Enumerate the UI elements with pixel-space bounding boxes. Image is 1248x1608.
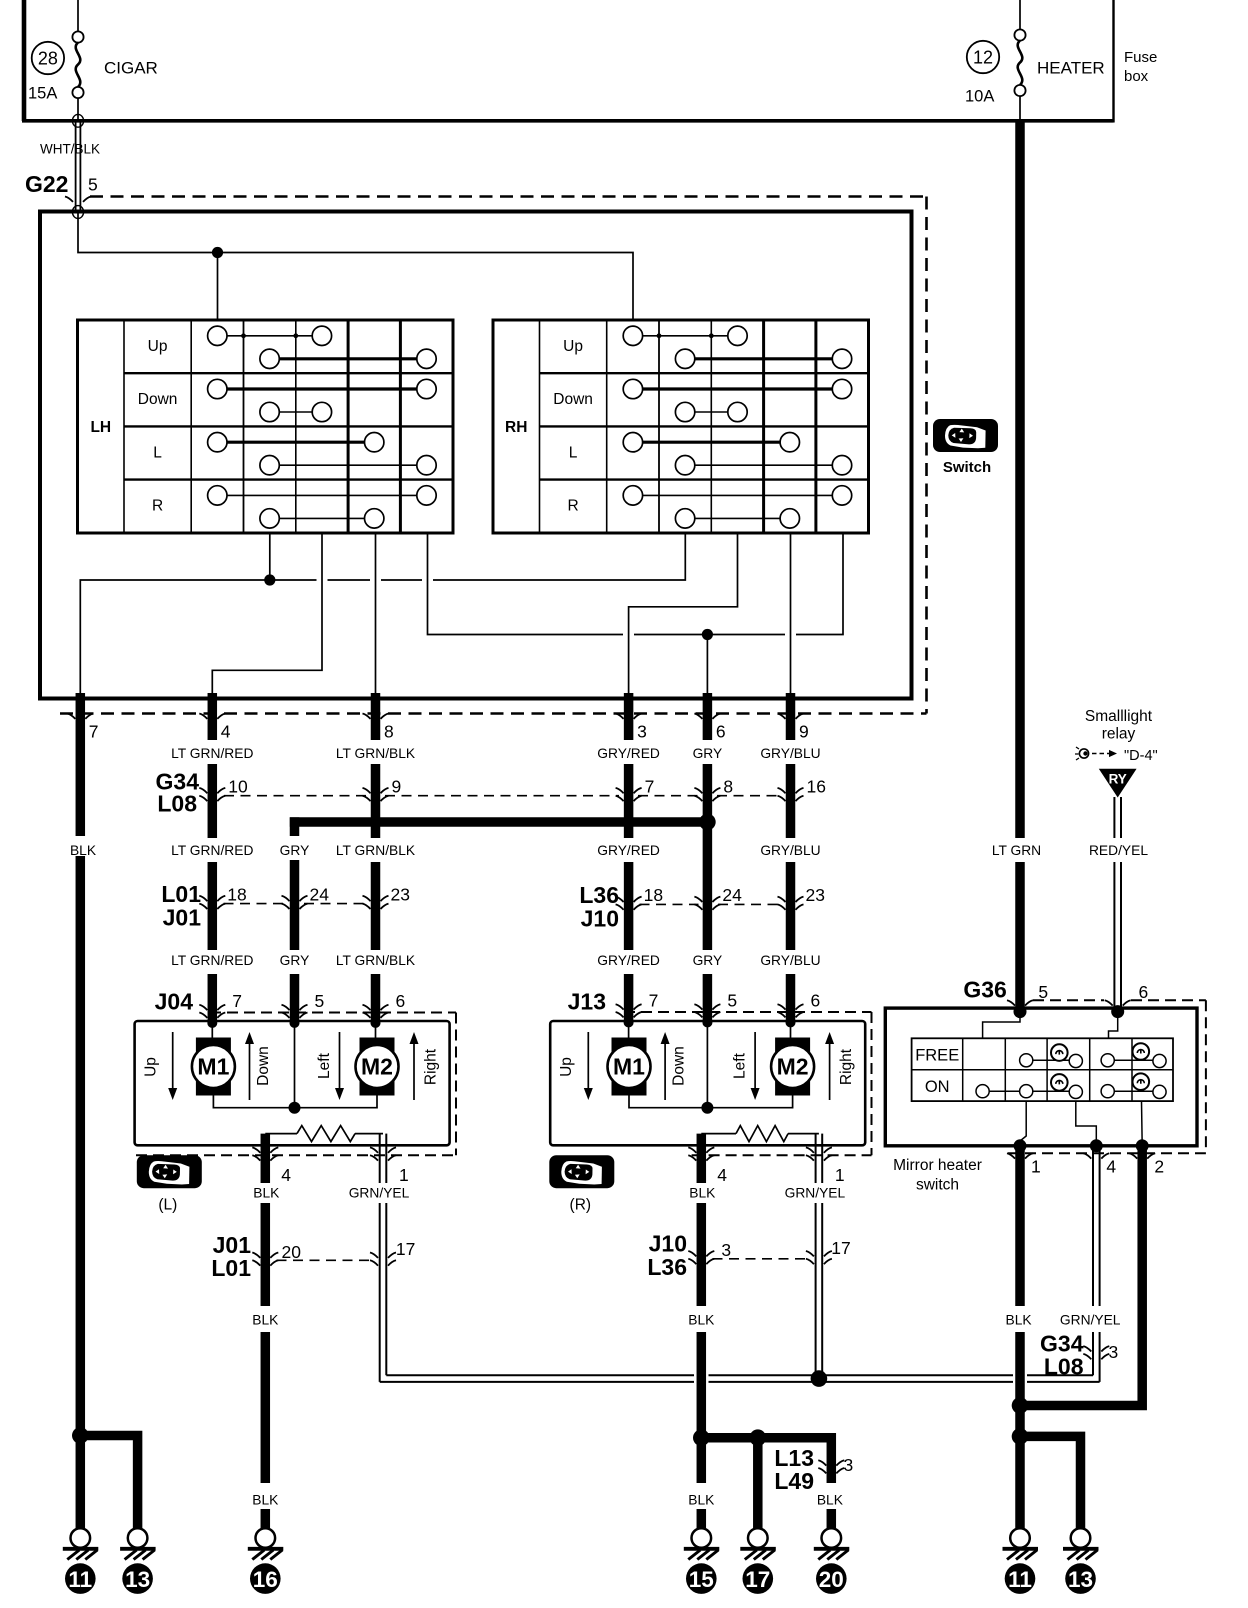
motor common wire (J04) [213, 1021, 377, 1108]
fuse F12 10A HEATER [965, 0, 1105, 120]
ground 13 at x=137.6 [120, 1528, 156, 1594]
svg-text:LT GRN/RED: LT GRN/RED [171, 843, 253, 858]
wire colour labels row 3 [171, 953, 821, 968]
svg-text:R: R [152, 498, 163, 515]
wire BLK J13 pin 4 stub [697, 1134, 707, 1183]
wire BLK bold branch to grounds 17 and 20 [701, 1433, 843, 1529]
connector J13 lower wings and pin numbers [688, 1147, 844, 1185]
svg-text:4: 4 [221, 722, 231, 742]
connector L13 L49 labels [774, 1445, 814, 1494]
svg-text:9: 9 [799, 722, 809, 742]
svg-text:G36: G36 [963, 977, 1006, 1003]
svg-text:16: 16 [253, 1567, 278, 1592]
svg-text:Left: Left [316, 1052, 333, 1079]
wire GRY bold link to J04 pin 5 [290, 817, 708, 1024]
svg-text:BLK: BLK [688, 1493, 715, 1508]
wire RH col4 to pin 9 [790, 533, 792, 697]
heater switch output wires [1020, 1101, 1142, 1146]
RH switch R row upper contact line [623, 486, 852, 505]
wire from LH col2 to common bus [269, 533, 271, 580]
connector L36/J10 dashed line [640, 903, 782, 905]
svg-text:M2: M2 [361, 1054, 393, 1080]
svg-text:LT GRN/RED: LT GRN/RED [171, 953, 253, 968]
connector J10 L36 labels (lower) [647, 1230, 687, 1280]
wire BLK bold branch to ground 13 left [80, 1436, 137, 1530]
RH switch Up row lower contact line [675, 349, 851, 368]
mirror assembly J04 dashed box [136, 1013, 456, 1156]
wire GRY/RED from switch pin 3 to J13 pin 7 (bold) [624, 693, 634, 1024]
LH switch Up row lower contact line [260, 349, 436, 368]
svg-text:6: 6 [1139, 982, 1149, 1002]
mirror heater resistor (J04) [265, 1126, 383, 1142]
LH switch Down row lower contact line [260, 402, 332, 421]
svg-text:Down: Down [671, 1046, 688, 1086]
wire GRN/YEL J04 pin 1 stub [380, 1134, 387, 1183]
mirror heater switch label [893, 1157, 982, 1194]
RH switch Down row lower contact line [675, 402, 747, 421]
svg-text:Up: Up [563, 338, 583, 355]
svg-text:11: 11 [1008, 1567, 1032, 1592]
RH switch Up row upper contact line [623, 326, 747, 345]
mirror assembly J13 dashed box [624, 1012, 872, 1155]
svg-text:relay: relay [1102, 726, 1136, 743]
svg-text:GRN/YEL: GRN/YEL [1060, 1312, 1121, 1327]
wire BLK bold branch to ground 13 right [1020, 1436, 1081, 1529]
junction dot BLK middle branch [693, 1429, 710, 1446]
svg-text:20: 20 [282, 1242, 302, 1262]
svg-text:LH: LH [90, 419, 111, 436]
connector J01 L01 labels (lower) [211, 1232, 251, 1281]
wire LH col3 to pin 4 [212, 533, 322, 697]
svg-text:2: 2 [1154, 1157, 1164, 1177]
svg-text:13: 13 [1068, 1567, 1093, 1592]
svg-text:RY: RY [1109, 772, 1127, 787]
LH switch table frame [78, 320, 454, 533]
connector G34/L08 dashed line [224, 795, 781, 797]
svg-text:1: 1 [1031, 1157, 1041, 1177]
svg-text:WHT/BLK: WHT/BLK [40, 142, 100, 157]
motor M1 (J13) [608, 1021, 651, 1096]
svg-text:GRN/YEL: GRN/YEL [349, 1186, 410, 1201]
connector J01/L01 wings and pin numbers [252, 1239, 415, 1266]
svg-text:M1: M1 [613, 1054, 645, 1080]
heater switch feed wires [983, 1012, 1118, 1039]
svg-text:3: 3 [844, 1455, 854, 1475]
ground 11 at x=1020 [1003, 1528, 1039, 1594]
svg-text:6: 6 [811, 991, 821, 1011]
feed wire from G22 into switch [78, 212, 633, 320]
wire LH col5 / RH col5 link y=634.5 [428, 533, 844, 635]
svg-text:BLK: BLK [688, 1312, 715, 1327]
connector G34 L08 labels (lower) [1040, 1331, 1084, 1380]
svg-text:15: 15 [689, 1567, 714, 1592]
svg-text:GRY/BLU: GRY/BLU [760, 953, 820, 968]
smalllight relay RY triangle [1099, 769, 1137, 798]
svg-text:9: 9 [392, 776, 402, 796]
mirror heater switch dashed box [1008, 1000, 1206, 1153]
RH switch L row lower contact line [675, 456, 851, 475]
fuse F28 15A CIGAR [28, 0, 158, 120]
mirror heater resistor (J13) [701, 1126, 819, 1142]
svg-text:J10: J10 [649, 1230, 687, 1256]
svg-text:BLK: BLK [252, 1312, 279, 1327]
svg-text:L: L [569, 444, 578, 461]
svg-text:4: 4 [1106, 1157, 1116, 1177]
svg-text:1: 1 [835, 1165, 845, 1185]
svg-text:LT GRN/BLK: LT GRN/BLK [336, 843, 416, 858]
svg-text:3: 3 [721, 1240, 731, 1260]
wire colour labels J13 [689, 1186, 845, 1201]
mirror assembly J13 box [550, 1021, 865, 1145]
connector G22 wings [65, 197, 91, 202]
RH switch table frame [493, 320, 869, 533]
svg-text:LT GRN/BLK: LT GRN/BLK [336, 746, 416, 761]
svg-text:G22: G22 [25, 171, 68, 197]
ground 20 at x=831.3 [814, 1528, 850, 1594]
junction dot bus/LH col2 [264, 574, 275, 585]
svg-text:Right: Right [423, 1048, 440, 1085]
svg-text:R: R [567, 498, 578, 515]
fuse 12 circle [967, 41, 999, 73]
connector J10/L36 dashed line [713, 1258, 809, 1260]
junction dot link/pin6 [702, 629, 713, 640]
svg-text:GRY/RED: GRY/RED [597, 843, 660, 858]
smalllight relay see-arrow icon and D-4 reference [1075, 747, 1158, 764]
junction dot feed LH [212, 247, 223, 258]
svg-text:L01: L01 [211, 1255, 251, 1281]
svg-text:L08: L08 [157, 791, 197, 817]
wire GRY/BLU from switch pin 9 to J13 pin 6 (bold) [786, 693, 796, 1024]
wire GRN/YEL J04 pin1 down to bus [380, 1203, 387, 1382]
connector G34 L08 labels [156, 769, 200, 817]
svg-text:M2: M2 [777, 1054, 809, 1080]
wire BLK from J13 pin 4 to ground 15 [688, 1203, 715, 1529]
svg-text:24: 24 [310, 885, 330, 905]
svg-text:J10: J10 [581, 905, 619, 931]
wire GRY from switch pin 6 to J13 pin 5 (bold) [703, 693, 713, 1024]
wire BLK from switch pin 7 (bold) [76, 693, 86, 1420]
svg-text:CIGAR: CIGAR [104, 59, 158, 78]
connector J13 wings and pin numbers [616, 991, 821, 1028]
junction dot motor common (J13) [701, 1102, 713, 1114]
svg-text:15A: 15A [28, 85, 57, 103]
wire GRN/YEL bus (double line) [380, 1375, 1100, 1382]
svg-text:GRY: GRY [280, 843, 310, 858]
svg-text:4: 4 [281, 1165, 291, 1185]
RH switch L row upper contact line [623, 433, 799, 452]
wire colour labels J04 [253, 1186, 409, 1201]
connector J10/L36 wings and pin numbers [688, 1238, 850, 1264]
mirror assembly J04 box [135, 1021, 450, 1145]
ground 15 at x=701.3 [684, 1528, 720, 1594]
direction labels J13 [558, 1032, 855, 1100]
wire BLK from J04 pin 4 to ground 16 [252, 1203, 279, 1529]
junction dot GRN/YEL bus / J13 pin1 [811, 1370, 828, 1387]
motor M2 (J13) [771, 1021, 814, 1096]
wire WHT/BLK (double line) from fuse box to switch box [40, 121, 100, 212]
svg-text:Down: Down [138, 391, 178, 408]
wire LT GRN bold from heater fuse to G36 pin 5 [1015, 120, 1025, 1008]
junction dot GRY link / pin6 wire [699, 814, 716, 831]
svg-text:M1: M1 [197, 1054, 229, 1080]
fuse box [22, 0, 1157, 123]
svg-text:7: 7 [232, 991, 242, 1011]
svg-text:RED/YEL: RED/YEL [1089, 843, 1148, 858]
connector G36 wings and pin numbers [1007, 982, 1148, 1006]
svg-text:17: 17 [831, 1238, 850, 1258]
svg-text:23: 23 [391, 885, 410, 905]
svg-text:GRY: GRY [693, 953, 723, 968]
svg-text:13: 13 [125, 1567, 150, 1592]
connector L01/J01 dashed line [224, 903, 367, 905]
svg-text:Smalllight: Smalllight [1085, 708, 1153, 725]
svg-text:Down: Down [255, 1046, 272, 1086]
svg-text:LT GRN: LT GRN [992, 843, 1041, 858]
wire BLK J04 pin 4 stub [261, 1134, 271, 1183]
wire crossing ellipse at fusebox bottom [72, 114, 83, 127]
svg-text:16: 16 [807, 776, 826, 796]
wire bold from heater switch pin 2 [1020, 1146, 1142, 1406]
svg-text:BLK: BLK [252, 1493, 279, 1508]
heater switch bottom pin wings and numbers [1007, 1153, 1164, 1176]
svg-text:(L): (L) [158, 1197, 177, 1214]
svg-text:Switch: Switch [943, 459, 991, 476]
svg-text:BLK: BLK [1006, 1312, 1033, 1327]
wire RED/YEL double from relay to G36 pin 6 [1114, 797, 1121, 1012]
smalllight relay label [1085, 708, 1153, 743]
svg-text:3: 3 [1109, 1342, 1119, 1362]
svg-text:LT GRN/RED: LT GRN/RED [171, 746, 253, 761]
RH switch R row lower contact line [675, 509, 799, 528]
svg-text:J04: J04 [155, 989, 194, 1015]
svg-text:5: 5 [315, 991, 325, 1011]
node heater switch pin 2 dot [1136, 1139, 1149, 1152]
LH switch L row lower contact line [260, 456, 436, 475]
svg-text:28: 28 [38, 49, 58, 69]
mirror switch inner solid box [40, 212, 912, 699]
svg-text:L: L [153, 444, 162, 461]
svg-text:4: 4 [717, 1165, 727, 1185]
svg-text:5: 5 [727, 991, 737, 1011]
connector L13/L49 wings and pin number [818, 1455, 853, 1475]
heater switch ON row contacts [976, 1073, 1166, 1098]
ground 17 at x=757.8 [740, 1528, 776, 1594]
LH switch Down row upper contact line [208, 379, 437, 398]
svg-text:L49: L49 [774, 1468, 814, 1494]
svg-text:11: 11 [68, 1567, 92, 1592]
svg-text:23: 23 [806, 885, 825, 905]
svg-text:7: 7 [649, 991, 659, 1011]
svg-text:12: 12 [973, 48, 993, 68]
svg-text:10: 10 [228, 776, 248, 796]
svg-text:GRY: GRY [280, 953, 310, 968]
svg-text:7: 7 [89, 722, 99, 742]
switch box pin wings and numbers [67, 714, 808, 742]
svg-text:Up: Up [148, 338, 168, 355]
svg-text:17: 17 [745, 1567, 770, 1592]
mirror heater switch box [885, 1008, 1197, 1146]
common bus wire y=580 (pin7 to RH col2) [80, 533, 685, 695]
svg-text:Up: Up [143, 1057, 160, 1077]
heater switch contact table [912, 1038, 1173, 1101]
svg-text:HEATER: HEATER [1037, 59, 1105, 78]
motor common wire (J13) [629, 1021, 793, 1108]
svg-text:switch: switch [916, 1177, 959, 1194]
connector G34/L08 lower wings and pin number [1083, 1342, 1118, 1362]
connector J04 wings and pin numbers [199, 991, 405, 1028]
svg-text:ON: ON [925, 1078, 950, 1096]
svg-text:17: 17 [396, 1239, 415, 1259]
svg-text:Down: Down [553, 391, 593, 408]
svg-text:18: 18 [227, 885, 246, 905]
wire GRN/YEL double from heater switch pin 4 [1060, 1146, 1121, 1382]
node heater switch pin 4 dot [1090, 1139, 1103, 1152]
svg-text:J01: J01 [163, 905, 202, 931]
junction dot BLK left branch [72, 1427, 89, 1444]
motor M2 (J04) [356, 1021, 399, 1096]
wire LT GRN/RED from switch pin 4 to J04 pin 7 (bold) [208, 693, 218, 1024]
wire GRN/YEL J13 pin1 down to bus [816, 1203, 823, 1379]
node G36 pin 6 entry dot [1111, 1005, 1124, 1018]
ground 11 at x=80.3 [63, 1528, 99, 1594]
svg-text:J13: J13 [568, 989, 606, 1015]
connector L36 J10 labels [579, 882, 619, 932]
connector J01/L01 dashed line [277, 1259, 373, 1261]
svg-text:L36: L36 [579, 882, 619, 908]
svg-text:(R): (R) [570, 1197, 592, 1214]
ground 13 at x=1080.5 [1063, 1528, 1099, 1594]
svg-text:Fuse: Fuse [1124, 49, 1157, 66]
svg-text:8: 8 [723, 776, 733, 796]
svg-text:BLK: BLK [253, 1186, 280, 1201]
svg-text:8: 8 [384, 722, 394, 742]
connector L01/J01 wings and pin numbers [199, 885, 410, 909]
svg-text:L36: L36 [647, 1254, 687, 1280]
svg-text:BLK: BLK [70, 843, 97, 858]
connector L36/J10 wings and pin numbers [616, 885, 825, 910]
svg-text:GRY/BLU: GRY/BLU [760, 746, 820, 761]
junction dot branch ground 17 [750, 1429, 767, 1446]
svg-text:box: box [1124, 68, 1149, 85]
connector L01 J01 labels [161, 881, 201, 931]
wire LT GRN/BLK from switch pin 8 to J04 pin 6 (bold) [371, 693, 381, 1024]
svg-text:18: 18 [644, 885, 663, 905]
fuse 28 circle [32, 42, 64, 74]
mirror icon L [137, 1155, 202, 1213]
svg-text:1: 1 [399, 1165, 409, 1185]
LH switch L row upper contact line [208, 433, 384, 452]
wire junction to pin 6 [706, 635, 708, 698]
svg-text:10A: 10A [965, 88, 994, 106]
direction labels J04 [143, 1032, 440, 1100]
mirror icon R [549, 1155, 614, 1213]
svg-text:Right: Right [838, 1048, 855, 1085]
svg-text:3: 3 [637, 722, 647, 742]
svg-text:Left: Left [732, 1052, 749, 1079]
RH switch Down row upper contact line [623, 379, 852, 398]
wire colour labels row 1 [171, 746, 821, 761]
heater switch FREE row contacts [1020, 1043, 1167, 1067]
svg-text:Up: Up [558, 1057, 575, 1077]
svg-text:GRN/YEL: GRN/YEL [785, 1186, 846, 1201]
LH switch R row upper contact line [208, 486, 437, 505]
wire LH col4 to pin 8 [375, 533, 377, 697]
connector J04 lower wings and pin numbers [252, 1147, 408, 1185]
svg-text:7: 7 [645, 776, 655, 796]
switch icon [933, 419, 998, 476]
wire colour labels row 2 [70, 843, 1148, 858]
svg-text:RH: RH [505, 419, 527, 436]
node heater switch pin 1 dot [1014, 1139, 1027, 1152]
ground 16 at x=265.3 [248, 1528, 284, 1594]
wire BLK switch pin7 lower part [76, 1420, 86, 1529]
mirror switch outer dashed box [60, 197, 927, 714]
svg-text:20: 20 [819, 1567, 844, 1592]
svg-text:LT GRN/BLK: LT GRN/BLK [336, 953, 416, 968]
svg-text:L01: L01 [161, 881, 201, 907]
wire RH col3 to pin 3 [629, 533, 738, 697]
svg-text:FREE: FREE [915, 1047, 959, 1065]
wire BLK bold from heater switch pin 1 [1006, 1146, 1033, 1529]
svg-text:5: 5 [1038, 982, 1048, 1002]
svg-text:GRY/RED: GRY/RED [597, 746, 660, 761]
svg-text:6: 6 [396, 991, 406, 1011]
svg-text:24: 24 [722, 885, 742, 905]
junction dot BLK ground branch [1012, 1428, 1029, 1445]
svg-text:Mirror heater: Mirror heater [893, 1157, 982, 1174]
svg-text:5: 5 [88, 175, 98, 195]
motor M1 (J04) [192, 1021, 235, 1096]
LH switch R row lower contact line [260, 509, 384, 528]
wire crossing ellipse at switch box top [72, 206, 83, 219]
svg-text:6: 6 [716, 722, 726, 742]
junction dot pin2/BLK [1012, 1397, 1029, 1414]
svg-text:GRY: GRY [693, 746, 723, 761]
junction dot motor common (J04) [289, 1102, 301, 1114]
svg-text:GRY/RED: GRY/RED [597, 953, 660, 968]
svg-text:GRY/BLU: GRY/BLU [760, 843, 820, 858]
svg-text:BLK: BLK [689, 1186, 716, 1201]
node G36 pin 5 entry dot [1014, 1005, 1027, 1018]
wire GRN/YEL J13 pin 1 stub [816, 1134, 823, 1183]
svg-text:J01: J01 [213, 1232, 252, 1258]
connector G34/L08 wings and pin numbers [199, 776, 826, 801]
LH switch Up row upper contact line [208, 326, 332, 345]
svg-text:"D-4": "D-4" [1124, 748, 1158, 764]
svg-text:BLK: BLK [817, 1493, 844, 1508]
